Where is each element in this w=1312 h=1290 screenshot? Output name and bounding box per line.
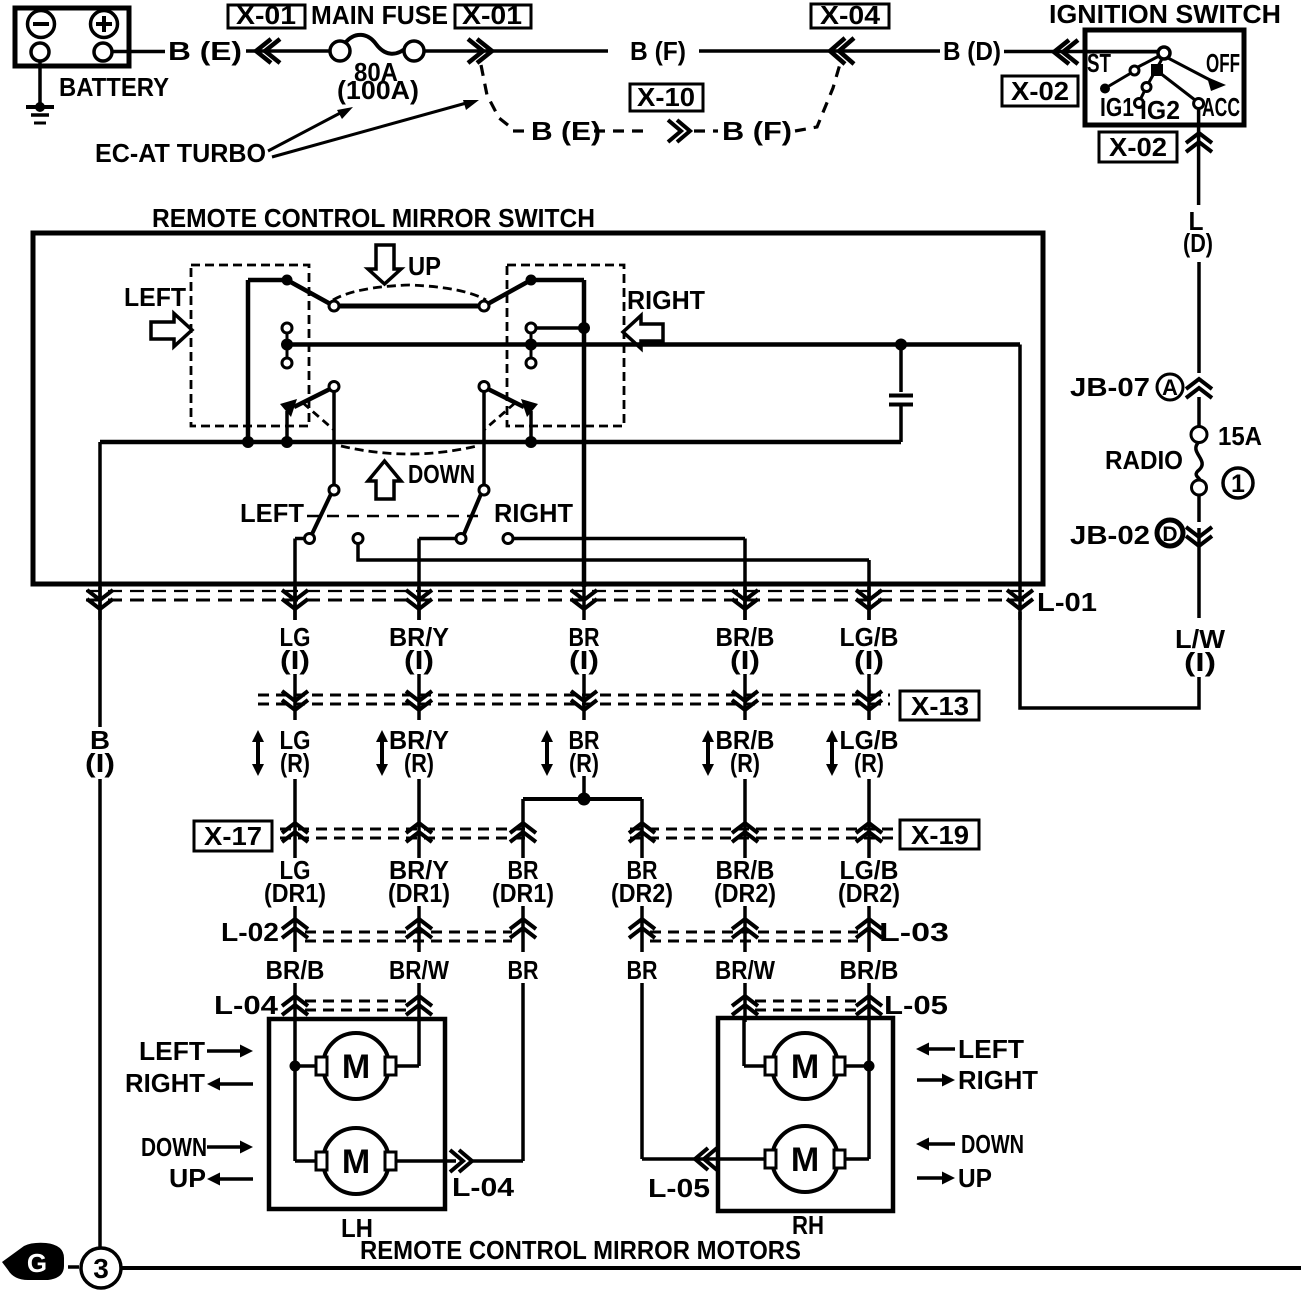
- svg-text:B (E): B (E): [168, 36, 242, 66]
- svg-text:RIGHT: RIGHT: [958, 1065, 1038, 1095]
- svg-text:(D): (D): [1183, 228, 1213, 258]
- svg-text:JB-07: JB-07: [1070, 372, 1150, 402]
- RIGHT arrow symbol: [623, 316, 663, 349]
- node bus 248: [242, 436, 254, 448]
- connector box X-02 bottom: [1099, 132, 1177, 162]
- main fuse 80A: [330, 41, 350, 61]
- wire B(D) to ignition switch: [1004, 50, 1157, 54]
- connector chevron X-01 right: [468, 39, 483, 63]
- junction block terminal A: [1157, 374, 1183, 400]
- svg-text:JB-02: JB-02: [1070, 520, 1150, 550]
- dash G to node 3: [68, 1265, 79, 1269]
- svg-text:L-05: L-05: [648, 1173, 710, 1203]
- svg-text:BR/B: BR/B: [266, 955, 325, 985]
- svg-text:X-17: X-17: [204, 821, 262, 851]
- dashed EC-AT alternate wire B(E): [481, 65, 513, 129]
- battery negative terminal: [28, 11, 55, 38]
- right switch second contact: [503, 534, 513, 544]
- left mirror select switch: [329, 485, 339, 495]
- connector L-04 chevrons: [282, 996, 308, 1006]
- lower rocker right contact: [479, 382, 489, 392]
- svg-text:L-01: L-01: [1037, 587, 1097, 617]
- svg-text:15A: 15A: [1218, 421, 1262, 451]
- svg-text:X-02: X-02: [1011, 76, 1069, 106]
- connector chevron X-10: [668, 120, 681, 142]
- wire BR/B into LH box: [293, 1022, 297, 1161]
- svg-text:B (F): B (F): [722, 116, 792, 146]
- wire rocker left to common bus: [246, 280, 251, 442]
- svg-text:X-10: X-10: [637, 82, 695, 112]
- wire B(I) lower: [98, 779, 102, 1248]
- connector box X-01 right: [455, 5, 531, 28]
- svg-text:DOWN: DOWN: [408, 459, 475, 489]
- svg-text:(I): (I): [569, 645, 599, 675]
- svg-text:MAIN FUSE: MAIN FUSE: [311, 0, 448, 30]
- connector L-02 dashed strip: [305, 931, 512, 934]
- connector L-03 dashed strip: [650, 931, 858, 934]
- wires to L-04 connector: [293, 983, 297, 1022]
- RH motor M1: [772, 1033, 838, 1099]
- label UP with arrow RH: [917, 1176, 949, 1180]
- two-way arrow at BR/B (R): [706, 741, 710, 765]
- wire contact to BR column: [536, 326, 584, 330]
- wire B(E) to fuse: [246, 49, 331, 53]
- ground symbol: [35, 102, 45, 112]
- svg-text:X-01: X-01: [236, 0, 296, 30]
- wire left moving contact to bus: [285, 411, 289, 442]
- svg-text:RADIO: RADIO: [1105, 445, 1183, 475]
- svg-text:(DR2): (DR2): [714, 878, 776, 908]
- svg-text:3: 3: [93, 1253, 109, 1284]
- callout arrow to dashed wire: [272, 102, 470, 157]
- dashed line left-right select: [307, 515, 478, 518]
- wire RH motor1 right: [845, 1064, 869, 1068]
- wire RH motor2 right: [845, 1157, 869, 1161]
- right mirror select switch: [479, 485, 489, 495]
- svg-text:L-05: L-05: [884, 990, 948, 1020]
- wire ignition ACC down: [1197, 108, 1201, 205]
- connector X-17 chevrons: [282, 823, 308, 833]
- svg-text:(100A): (100A): [337, 75, 419, 105]
- wire BR/B column: [743, 539, 747, 621]
- label RIGHT with arrow RH: [917, 1078, 949, 1082]
- connector X-19 chevrons: [629, 823, 655, 833]
- UP arrow symbol: [368, 245, 401, 284]
- wire LG column from left switch: [293, 539, 297, 621]
- connector chevron X-02 bottom: [1186, 133, 1212, 143]
- battery post right: [94, 43, 112, 61]
- svg-text:(DR2): (DR2): [838, 878, 900, 908]
- svg-text:OFF: OFF: [1206, 48, 1240, 78]
- svg-text:ACC: ACC: [1202, 92, 1240, 122]
- svg-text:X-04: X-04: [820, 0, 881, 30]
- node RH motor junction: [864, 1061, 875, 1072]
- ignition rotor pivot: [1158, 47, 1170, 59]
- junction block terminal D: [1157, 520, 1183, 546]
- wire LG/B column: [867, 560, 871, 620]
- svg-text:(I): (I): [730, 645, 760, 675]
- svg-text:(DR1): (DR1): [264, 878, 326, 908]
- svg-text:ST: ST: [1087, 48, 1111, 78]
- connector box X-17: [194, 821, 272, 851]
- wire LH motor2 right out of box: [396, 1159, 456, 1163]
- capacitor C1: [899, 345, 903, 393]
- wire center bus to L-01 column: [1018, 345, 1022, 621]
- node 3 circled: [81, 1248, 121, 1288]
- dashed lower rocker blade right: [484, 403, 515, 430]
- rocker right blade: [484, 280, 531, 306]
- connector chevron X-01 left: [265, 39, 280, 63]
- connector L-05 chevrons: [732, 996, 758, 1006]
- svg-text:EC-AT TURBO: EC-AT TURBO: [95, 138, 266, 168]
- connector box X-01 left: [228, 5, 305, 28]
- connector X-13 chevrons: [282, 691, 308, 701]
- label DOWN with arrow RH: [922, 1142, 955, 1146]
- wire battery to B(E): [112, 50, 165, 54]
- dashed rocker arc lower: [341, 446, 477, 454]
- fuse number 1: [1223, 468, 1253, 498]
- connector X-17 dashed strip: [280, 828, 530, 831]
- wire lower common bus: [100, 440, 901, 445]
- svg-text:X-01: X-01: [462, 0, 522, 30]
- wire LH motor1 right to BR/W: [396, 1064, 419, 1068]
- svg-text:RIGHT: RIGHT: [627, 285, 705, 315]
- connector X-13 wires: [293, 674, 297, 720]
- wires to X-17 X-19 connectors: [293, 779, 297, 858]
- svg-text:(R): (R): [404, 748, 434, 778]
- dashed wire X-10 to B(F): [694, 129, 718, 132]
- wire left switch pivot: [332, 392, 336, 490]
- connector chevron L-05: [704, 1148, 717, 1170]
- wire B(I) upper: [98, 587, 102, 727]
- wire BR(DR1) branch: [521, 799, 525, 858]
- svg-text:X-13: X-13: [911, 691, 969, 721]
- svg-text:REMOTE CONTROL MIRROR MOTORS: REMOTE CONTROL MIRROR MOTORS: [360, 1235, 801, 1265]
- svg-text:G: G: [27, 1248, 47, 1278]
- wire to LH motor2 left: [295, 1159, 317, 1163]
- connector L-05 dashed strip: [755, 1000, 856, 1003]
- wire bus left down B(I): [98, 442, 102, 587]
- svg-text:BATTERY: BATTERY: [59, 72, 169, 102]
- connector chevron L-04: [450, 1150, 463, 1172]
- LH motor M1: [323, 1033, 389, 1099]
- svg-text:BR: BR: [508, 955, 539, 985]
- RH mirror motor box: [718, 1018, 893, 1211]
- radio fuse 15A: [1191, 427, 1207, 443]
- wires to L-02 L-03 connectors: [293, 906, 297, 952]
- ignition switch box: [1085, 30, 1244, 125]
- svg-text:(I): (I): [1184, 647, 1216, 677]
- dashed lower rocker blade left: [303, 403, 334, 430]
- svg-text:(DR1): (DR1): [388, 878, 450, 908]
- wire to LH motor1 left: [295, 1064, 317, 1068]
- two-way arrow at LG (R): [256, 741, 260, 765]
- connector chevron JB-07: [1186, 379, 1212, 389]
- wire center bus: [287, 342, 1020, 347]
- svg-text:RIGHT: RIGHT: [494, 498, 573, 528]
- svg-text:B (D): B (D): [943, 36, 1001, 66]
- svg-text:(R): (R): [280, 748, 310, 778]
- connector L-02 chevrons: [282, 919, 308, 929]
- node LH motor junction: [290, 1061, 301, 1072]
- connector L-03 chevrons: [629, 919, 655, 929]
- svg-text:DOWN: DOWN: [961, 1129, 1024, 1159]
- connector chevron X-04: [839, 38, 854, 64]
- left switch second contact: [353, 534, 363, 544]
- svg-text:UP: UP: [958, 1163, 992, 1193]
- svg-text:LEFT: LEFT: [139, 1036, 205, 1066]
- svg-text:1: 1: [1231, 470, 1245, 498]
- connector X-13 dashed strip: [258, 694, 890, 697]
- DOWN arrow symbol: [368, 461, 401, 499]
- two-way arrow at BR (R): [545, 741, 549, 765]
- connector box X-19: [900, 820, 979, 849]
- ignition contact ACC arm: [1160, 73, 1195, 100]
- svg-text:(DR2): (DR2): [611, 878, 673, 908]
- ignition contact OFF arm: [1168, 58, 1210, 80]
- ignition contact IG arm: [1148, 59, 1162, 84]
- connector box X-02 left: [1002, 76, 1078, 106]
- wire BR/W into RH box: [742, 1018, 746, 1066]
- wire right switch pivot: [482, 392, 486, 490]
- wire L(D) down to JB-07: [1197, 262, 1201, 373]
- dashed wire to X-10: [594, 129, 650, 132]
- svg-text:UP: UP: [408, 251, 441, 281]
- svg-text:X-19: X-19: [911, 820, 969, 850]
- wire RH motor2 left out of box: [706, 1157, 766, 1161]
- svg-text:L-03: L-03: [879, 917, 949, 947]
- wire L/W to L-01: [1020, 612, 1199, 708]
- svg-text:D: D: [1162, 523, 1177, 546]
- two-way arrow at LG/B (R): [830, 741, 834, 765]
- dashed selector box left: [191, 265, 309, 426]
- wire battery to ground: [38, 61, 42, 107]
- battery positive terminal: [91, 11, 118, 38]
- svg-text:REMOTE CONTROL MIRROR SWITCH: REMOTE CONTROL MIRROR SWITCH: [152, 203, 595, 233]
- svg-text:X-02: X-02: [1109, 132, 1167, 162]
- callout arrow to fuse: [268, 111, 344, 151]
- svg-text:IGNITION SWITCH: IGNITION SWITCH: [1049, 0, 1281, 29]
- wire fuse to B(F): [423, 49, 608, 53]
- wire BR(R) to split node: [582, 776, 586, 799]
- wire stubs below box: [98, 587, 102, 620]
- LH motor M2: [323, 1128, 389, 1194]
- dashed wire to X-04: [795, 64, 840, 131]
- svg-text:DOWN: DOWN: [141, 1132, 207, 1162]
- wire chevron to BR(DR1) column: [472, 1159, 523, 1163]
- svg-text:LEFT: LEFT: [240, 498, 304, 528]
- connector L-04 dashed strip: [305, 1000, 408, 1003]
- two-way arrow at BR/Y (R): [380, 741, 384, 765]
- svg-text:(I): (I): [280, 645, 310, 675]
- rocker left blade: [287, 280, 334, 306]
- svg-text:BR/W: BR/W: [389, 955, 449, 985]
- wire rocker right down BR: [582, 280, 587, 587]
- wire BR/B into RH box: [867, 1022, 871, 1159]
- wire BR/Y column from right switch: [417, 539, 421, 621]
- node junction 584-328: [578, 322, 590, 334]
- node capacitor junction: [895, 339, 907, 351]
- svg-text:M: M: [791, 1141, 819, 1179]
- wires to L-05 connector: [743, 983, 747, 1022]
- up-down rocker bar: [334, 304, 484, 309]
- ground bus wire: [121, 1266, 1301, 1270]
- svg-text:BR: BR: [627, 955, 658, 985]
- svg-text:B (E): B (E): [531, 116, 601, 146]
- svg-text:(I): (I): [854, 645, 884, 675]
- connector X-19 dashed strip: [630, 828, 897, 831]
- svg-text:IG1: IG1: [1100, 92, 1134, 122]
- ignition contact ST arm: [1138, 56, 1159, 67]
- connector box X-13: [900, 691, 979, 720]
- svg-text:LEFT: LEFT: [124, 282, 186, 312]
- node bus 531: [525, 436, 537, 448]
- svg-text:M: M: [342, 1143, 370, 1181]
- connector box X-04: [811, 4, 889, 28]
- lower rocker left contact: [329, 382, 339, 392]
- svg-text:B (F): B (F): [630, 36, 686, 66]
- svg-text:M: M: [342, 1048, 370, 1086]
- connector chevron X-02: [1063, 40, 1078, 64]
- node bus 287: [281, 436, 293, 448]
- svg-text:BR/W: BR/W: [715, 955, 775, 985]
- battery post left: [31, 43, 49, 61]
- connector chevron JB-02: [1186, 527, 1212, 537]
- svg-text:UP: UP: [169, 1163, 206, 1193]
- wire B(F) to X-04: [699, 49, 940, 53]
- wire radio fuse to JB-02: [1197, 495, 1201, 522]
- ground reference G symbol: [2, 1243, 64, 1280]
- dashed selector box right: [507, 265, 624, 426]
- svg-text:(I): (I): [85, 748, 115, 778]
- svg-text:(R): (R): [730, 748, 760, 778]
- wire chevron to BR(DR2) column: [642, 1157, 704, 1161]
- battery B1: [15, 8, 129, 66]
- svg-text:L-02: L-02: [221, 917, 279, 947]
- svg-text:(DR1): (DR1): [492, 878, 554, 908]
- dashed rocker arc upper: [333, 285, 486, 300]
- LH mirror motor box: [269, 1019, 445, 1209]
- wire into ignition switch: [1085, 51, 1158, 54]
- svg-text:(R): (R): [854, 748, 884, 778]
- svg-text:BR/B: BR/B: [840, 955, 899, 985]
- connector L-01 chevrons: [87, 590, 113, 600]
- RH motor M2: [772, 1126, 838, 1192]
- wire JB-02 down to L/W: [1197, 528, 1201, 618]
- wire BR(DR2) branch: [640, 799, 644, 858]
- left center contact group: [286, 328, 289, 363]
- wire JB-07 to radio fuse: [1197, 397, 1201, 427]
- LEFT arrow symbol: [151, 314, 192, 347]
- svg-text:L-04: L-04: [214, 990, 279, 1020]
- svg-text:IG2: IG2: [1140, 95, 1180, 125]
- connector box X-10: [630, 84, 703, 111]
- svg-text:LEFT: LEFT: [958, 1034, 1024, 1064]
- svg-text:M: M: [791, 1048, 819, 1086]
- remote control mirror switch box: [33, 233, 1043, 584]
- svg-text:(R): (R): [569, 748, 599, 778]
- connector L-01 dashed strip: [86, 590, 1031, 592]
- right center contact group: [530, 328, 533, 363]
- wire right moving contact to bus: [529, 411, 533, 442]
- svg-text:A: A: [1162, 375, 1178, 400]
- svg-text:RIGHT: RIGHT: [125, 1068, 205, 1098]
- svg-text:L-04: L-04: [452, 1172, 515, 1202]
- svg-text:(I): (I): [404, 645, 434, 675]
- wire BR split horizontal: [523, 797, 642, 801]
- node BR split junction: [578, 793, 591, 806]
- label LEFT with arrow RH: [922, 1047, 955, 1051]
